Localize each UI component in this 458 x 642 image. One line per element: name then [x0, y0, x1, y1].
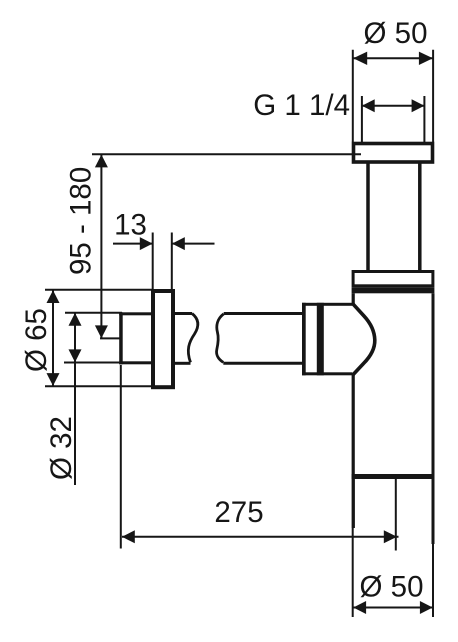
svg-text:Ø 50: Ø 50 — [364, 17, 428, 50]
svg-text:G 1 1/4: G 1 1/4 — [253, 89, 350, 122]
svg-text:Ø 32: Ø 32 — [45, 416, 78, 480]
svg-text:Ø 50: Ø 50 — [360, 571, 424, 604]
svg-text:13: 13 — [114, 209, 147, 242]
svg-text:Ø 65: Ø 65 — [20, 308, 53, 372]
svg-text:275: 275 — [214, 496, 263, 529]
svg-text:95 - 180: 95 - 180 — [65, 167, 98, 275]
